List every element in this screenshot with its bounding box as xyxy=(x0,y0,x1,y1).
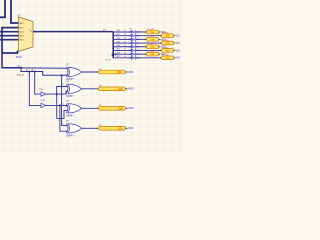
resistor R2 xyxy=(147,30,159,34)
no-erc specks xyxy=(26,69,27,70)
svg-text:1?: 1? xyxy=(62,124,64,126)
wire bus stub row 4 xyxy=(113,42,131,44)
wire resistor to net label row 2 xyxy=(174,35,176,37)
wire diode to resistor row 8 xyxy=(136,57,162,59)
svg-text:DM74?: DM74? xyxy=(66,136,74,138)
svg-text:R? 330: R? 330 xyxy=(162,55,169,57)
svg-text:4D2: 4D2 xyxy=(117,38,120,40)
wire pin2 from left vertical xyxy=(2,28,19,53)
resistor R8 xyxy=(147,52,159,56)
svg-text:4D1: 4D1 xyxy=(128,70,134,74)
svg-text:330: 330 xyxy=(118,127,123,130)
svg-text:VD2: VD2 xyxy=(176,34,180,38)
svg-text:VD6: VD6 xyxy=(176,48,180,52)
diode D5 xyxy=(131,45,135,48)
resistor R12 xyxy=(99,107,126,111)
wire gate 4 output xyxy=(82,127,99,129)
svg-text:D7: D7 xyxy=(124,52,126,54)
svg-text:R? 330: R? 330 xyxy=(162,32,169,34)
diode D2 xyxy=(131,34,135,37)
wire resistor to net label gate 3 xyxy=(126,107,128,109)
xor-gate U5 body xyxy=(68,124,82,133)
svg-text:VD8: VD8 xyxy=(176,56,180,60)
resistor R6 xyxy=(147,45,159,49)
svg-text:4D4: 4D4 xyxy=(128,126,134,130)
svg-text:A0 C: A0 C xyxy=(20,22,25,25)
resistor R11 xyxy=(99,87,126,91)
resistor R3 xyxy=(162,34,174,38)
wire resistor to net label row 6 xyxy=(174,49,176,51)
wire bus stub row 7 xyxy=(113,53,131,55)
svg-text:A1 C: A1 C xyxy=(20,26,25,29)
svg-text:U?A: U?A xyxy=(38,88,43,91)
wire bus stub row 8 xyxy=(113,57,131,59)
wire V3 to gate3 in2 xyxy=(57,94,68,118)
resistor R7 xyxy=(162,49,174,53)
diode D1 xyxy=(131,30,135,33)
resistor R4 xyxy=(147,38,159,42)
wire vertical bus xyxy=(112,32,114,59)
wire resistor to net label row 8 xyxy=(174,57,176,59)
wire diode to resistor row 5 xyxy=(136,46,147,48)
svg-text:D1: D1 xyxy=(124,30,126,32)
svg-text:MUX: MUX xyxy=(16,55,22,59)
svg-text:R? 330: R? 330 xyxy=(147,36,154,38)
wire diode to resistor row 4 xyxy=(136,42,162,44)
wire vertical V1 to inverter2 xyxy=(29,72,41,106)
xor-gate U4 input arc xyxy=(66,104,68,113)
svg-text:D5: D5 xyxy=(124,45,126,47)
svg-text:R? 330: R? 330 xyxy=(162,40,169,42)
resistor R13 xyxy=(99,127,126,131)
wire diode to resistor row 2 xyxy=(136,35,162,37)
wire pin3 xyxy=(0,31,19,33)
svg-text:1?: 1? xyxy=(62,104,64,106)
wire V5 to gate4 in2 xyxy=(60,105,68,131)
gate input pin dots xyxy=(67,68,68,69)
wire inverter2 output xyxy=(46,104,68,107)
wire mux output xyxy=(33,31,113,33)
wire resistor to net label gate 2 xyxy=(126,88,128,90)
svg-text:4D5: 4D5 xyxy=(117,49,120,51)
svg-text:1?: 1? xyxy=(62,85,64,87)
wire bus stub row 3 xyxy=(113,38,131,40)
svg-text:S0 C: S0 C xyxy=(20,40,25,42)
svg-text:330: 330 xyxy=(118,107,123,110)
diode D7 xyxy=(131,53,135,56)
wire gate 2 output xyxy=(82,88,99,90)
svg-text:4D6: 4D6 xyxy=(117,52,120,54)
diode D4 xyxy=(131,41,135,44)
resistor R10 xyxy=(99,70,126,74)
wire resistor to net label row 4 xyxy=(174,42,176,44)
svg-text:DM74?: DM74? xyxy=(66,116,74,118)
wire gate 3 output xyxy=(82,107,99,109)
resistor R5 xyxy=(162,41,174,45)
svg-text:DM74?: DM74? xyxy=(66,96,74,98)
svg-text:4D2: 4D2 xyxy=(128,87,134,91)
svg-text:4D3: 4D3 xyxy=(128,106,134,110)
svg-text:D2: D2 xyxy=(124,34,126,36)
svg-text:R?_R: R?_R xyxy=(105,59,111,61)
wire bus stub row 2 xyxy=(113,35,131,37)
xor-gate U3 body xyxy=(68,84,82,93)
wire bus input 1 from top edge xyxy=(11,0,19,23)
wire resistor to net label gate 1 xyxy=(126,71,128,73)
svg-text:4D7: 4D7 xyxy=(117,56,120,58)
diode D3 xyxy=(131,38,135,41)
svg-text:4D3: 4D3 xyxy=(117,41,120,43)
xor-gate U2 body xyxy=(68,67,82,76)
svg-text:330: 330 xyxy=(117,71,122,74)
wire diode to resistor row 3 xyxy=(136,38,147,40)
svg-text:330: 330 xyxy=(118,88,123,91)
inverter U?A xyxy=(41,92,46,96)
svg-text:R? 330: R? 330 xyxy=(162,47,169,49)
svg-text:D4: D4 xyxy=(124,41,126,43)
wire diode to resistor row 7 xyxy=(136,53,147,55)
junction dots xyxy=(20,67,62,106)
resistor R9 xyxy=(162,56,174,60)
wire resistor to net label gate 4 xyxy=(126,127,128,129)
wire resistor to net label row 5 xyxy=(159,46,161,48)
svg-text:4D0: 4D0 xyxy=(117,30,120,32)
wire branch to gate1 in2 xyxy=(21,68,68,76)
wire bus stub row 1 xyxy=(113,31,131,33)
8 LED/diode rows xyxy=(113,29,181,60)
wire gate 1 output xyxy=(82,71,99,73)
svg-text:4D4: 4D4 xyxy=(117,45,120,47)
wire resistor to net label row 3 xyxy=(159,38,161,40)
wire V4 to gate4 in1 xyxy=(62,75,68,125)
svg-text:D8: D8 xyxy=(124,56,126,58)
xor-gate U4 body xyxy=(68,104,82,113)
wire bus stub row 6 xyxy=(113,49,131,51)
wire resistor to net label row 1 xyxy=(159,31,161,33)
wire diode to resistor row 6 xyxy=(136,49,162,51)
xor-gate U2 input arc xyxy=(66,67,68,76)
svg-text:VD4: VD4 xyxy=(176,41,180,45)
wire resistor to net label row 7 xyxy=(159,53,161,55)
svg-text:S?0_K: S?0_K xyxy=(17,74,25,77)
svg-text:4D1: 4D1 xyxy=(117,34,120,36)
diode D6 xyxy=(131,49,135,52)
xor-gate U3 input arc xyxy=(66,84,68,93)
svg-text:R? 330: R? 330 xyxy=(147,44,154,46)
xor-gate U5 input arc xyxy=(66,124,68,133)
wire bus input 2 to left edge xyxy=(0,0,5,17)
svg-text:A2 C: A2 C xyxy=(20,31,25,34)
wire diode to resistor row 1 xyxy=(136,31,147,33)
wire pin4 xyxy=(0,35,19,37)
wire to gate1 in1 xyxy=(21,67,68,69)
svg-text:D6: D6 xyxy=(124,49,126,51)
svg-text:D3: D3 xyxy=(124,38,126,40)
gates + output resistors xyxy=(66,65,134,138)
svg-text:U?B: U?B xyxy=(41,100,46,102)
inverter U?B xyxy=(41,103,46,107)
wire bus stub row 5 xyxy=(113,46,131,48)
svg-text:R? 330: R? 330 xyxy=(147,51,154,53)
wire gate2 in1 xyxy=(57,87,68,95)
wire vertical V2 to inverter1 xyxy=(35,72,41,95)
svg-text:A3 C: A3 C xyxy=(20,35,25,38)
wire inverter1 output xyxy=(46,91,68,94)
wire pin5 xyxy=(0,39,19,41)
mux U? xyxy=(19,17,34,52)
svg-text:R? 330: R? 330 xyxy=(147,29,154,31)
diode D8 xyxy=(131,56,135,59)
wire S net horizontal xyxy=(2,53,21,68)
